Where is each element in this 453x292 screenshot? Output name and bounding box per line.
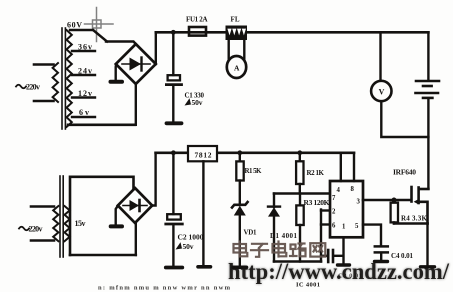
svg-text:1: 1 xyxy=(342,224,346,231)
ground C2 xyxy=(166,266,183,270)
label 24v xyxy=(78,67,92,76)
svg-text:R4 3.3K: R4 3.3K xyxy=(401,214,428,222)
AC source label lower ~220v xyxy=(19,225,43,234)
T2 primary lead lower xyxy=(31,239,54,242)
T2 secondary loop wire xyxy=(70,177,134,255)
wire pins 2-6 jumper xyxy=(320,210,322,262)
switch blade from 60V tap xyxy=(93,30,107,42)
wire source down xyxy=(426,224,428,266)
label 50v with polarity arrow xyxy=(176,242,194,251)
transformer T2 primary winding xyxy=(53,206,58,241)
label C3 0.01 xyxy=(338,273,362,280)
capacitor C4 xyxy=(375,246,388,260)
svg-text:FL: FL xyxy=(231,16,240,24)
wire pin8 to rail xyxy=(353,153,355,181)
voltmeter V branch wire xyxy=(379,32,381,80)
B2 negative stub xyxy=(111,206,122,227)
wire battery to mosfet drain xyxy=(427,99,429,189)
svg-text:220v: 220v xyxy=(26,83,40,92)
wire B2 bottom to loop xyxy=(135,223,137,255)
svg-text:FU1 2A: FU1 2A xyxy=(186,16,208,24)
label 12v xyxy=(78,89,92,98)
svg-text:12v: 12v xyxy=(78,89,92,98)
thermal breaker FL xyxy=(226,26,247,40)
wire pin5 to C4 xyxy=(363,225,381,245)
mosfet Q1 IRF640 xyxy=(412,187,429,224)
lower rail wire right of 7812 xyxy=(217,152,354,155)
lower rail wire left of 7812 xyxy=(156,152,188,155)
capacitor C1 xyxy=(166,32,181,121)
resistor R1 xyxy=(236,153,243,181)
T1 tap 12v wire xyxy=(72,96,95,98)
ground VD1 xyxy=(233,265,247,269)
wire jumper to pin6 xyxy=(321,223,330,225)
svg-text:2: 2 xyxy=(332,209,336,216)
label C1 330 xyxy=(185,92,205,100)
svg-text:3: 3 xyxy=(357,199,361,206)
capacitor C3 xyxy=(321,250,343,262)
AC source label upper ~220v xyxy=(16,83,40,92)
wire VD1 to ground xyxy=(239,216,241,266)
resistor R3 xyxy=(296,194,303,262)
label R1 5K xyxy=(245,167,263,175)
wire D1/R3 bottom tie xyxy=(274,260,321,263)
svg-text:50v: 50v xyxy=(192,98,203,107)
wire B1 right corner to top rail xyxy=(155,32,157,64)
timer U1 555 xyxy=(330,181,363,237)
ammeter A xyxy=(227,56,246,78)
watermark CJK line 电子电路网 xyxy=(234,242,326,257)
transformer T1 primary winding xyxy=(53,63,58,102)
ground C1 xyxy=(167,121,182,125)
wire V to battery bottom xyxy=(381,101,428,137)
svg-text:V: V xyxy=(379,88,385,97)
ground source xyxy=(421,265,435,268)
battery GB xyxy=(416,81,440,98)
wire FL to ammeter right xyxy=(243,40,245,62)
transformer T2 core xyxy=(60,176,63,257)
wire jumper to pin2 xyxy=(321,209,330,211)
svg-text:7: 7 xyxy=(332,195,336,202)
svg-text:7812: 7812 xyxy=(195,151,212,160)
cursor crosshair xyxy=(85,8,114,42)
zener diode VD1 xyxy=(232,202,248,216)
T1 primary lead lower xyxy=(34,100,54,103)
label FU1 2A xyxy=(186,16,208,24)
label 36v xyxy=(78,43,92,52)
svg-text:5: 5 xyxy=(355,223,359,230)
svg-text:VD1: VD1 xyxy=(244,229,258,237)
label R2 1K xyxy=(307,169,325,177)
label C2 1000 xyxy=(178,233,204,242)
label D1 4001 xyxy=(270,232,298,240)
label R3 120K xyxy=(304,198,330,207)
junction node R1/rail xyxy=(237,150,242,155)
T1 tap 24v wire xyxy=(72,74,95,76)
svg-text:D1 4001: D1 4001 xyxy=(270,232,298,240)
label 15v xyxy=(75,219,86,228)
regulator U2 7812 xyxy=(188,146,217,161)
wire pin1 to ground xyxy=(342,237,344,263)
svg-text:24v: 24v xyxy=(78,67,92,76)
svg-text:220v: 220v xyxy=(29,225,43,234)
wire switch to bridge xyxy=(106,42,136,45)
label FL xyxy=(231,16,240,24)
faint caption xyxy=(98,285,231,292)
svg-text:A: A xyxy=(234,64,240,73)
fuse FU1 xyxy=(189,27,206,36)
svg-text:R1 5K: R1 5K xyxy=(245,167,263,175)
svg-text:4: 4 xyxy=(337,187,341,194)
junction node R2/rail xyxy=(297,150,302,155)
wire B2 right to lower rail xyxy=(152,153,155,206)
label IC 4001 xyxy=(296,282,320,289)
svg-text:n: mfnm nmu m nnw wmr nn nwm: n: mfnm nmu m nnw wmr nn nwm xyxy=(98,285,231,292)
watermark url text xyxy=(228,259,450,284)
transformer T2 secondary winding xyxy=(65,206,70,241)
svg-text:15v: 15v xyxy=(75,219,86,228)
label R4 3.3K xyxy=(401,214,428,222)
wire R1 to VD1 xyxy=(239,181,241,206)
wire FL to ammeter left xyxy=(227,40,229,62)
wire pin4 to rail xyxy=(340,153,342,181)
bridge rectifier B1 xyxy=(116,44,156,84)
voltmeter V xyxy=(371,81,391,101)
svg-text:60V: 60V xyxy=(67,21,82,30)
svg-text:8: 8 xyxy=(351,186,355,193)
T1 tap 6v wire xyxy=(72,116,95,118)
T1 tap 60V wire xyxy=(70,29,93,31)
top rail wire left segment xyxy=(156,31,226,34)
capacitor C2 xyxy=(166,153,183,265)
bridge rectifier B2 xyxy=(118,188,152,223)
transformer T1 core xyxy=(62,28,65,129)
wire 7812 ground pin xyxy=(202,161,204,264)
junction node C1/rail xyxy=(171,30,176,35)
svg-text:http://www.cndzz.com/: http://www.cndzz.com/ xyxy=(228,259,450,284)
wire B1 bottom to T1 bottom lead xyxy=(135,84,137,125)
junction node gate/R4 xyxy=(392,198,397,203)
ground C4 xyxy=(375,260,388,263)
label 6v xyxy=(79,108,89,117)
wire pin3 to gate xyxy=(363,199,411,202)
node wire R2/R3/D1/pin7 xyxy=(274,192,330,195)
label VD1 xyxy=(244,229,258,237)
resistor R4 xyxy=(391,200,398,224)
wire T2 loop bottom xyxy=(70,254,136,257)
svg-text:C2 1000: C2 1000 xyxy=(178,233,204,242)
B1 negative stub xyxy=(111,65,123,82)
svg-text:50v: 50v xyxy=(183,242,194,251)
T1 bottom lead wire xyxy=(68,124,135,127)
T2 primary lead upper xyxy=(31,205,54,208)
T1 primary lead upper xyxy=(34,63,54,66)
ground pin1 xyxy=(338,263,350,266)
T1 tap 36v wire xyxy=(72,50,95,52)
wire source rail R4 to source xyxy=(394,222,428,225)
label IRF640 xyxy=(393,167,416,176)
label 50v with polarity arrow xyxy=(185,98,203,107)
label C4 0.01 xyxy=(391,252,414,260)
svg-text:IRF640: IRF640 xyxy=(393,167,416,176)
wire top rail to battery xyxy=(427,32,429,79)
resistor R2 xyxy=(296,153,303,194)
diode D1 xyxy=(268,194,280,262)
label 60V xyxy=(67,21,82,30)
svg-text:36v: 36v xyxy=(78,43,92,52)
ground 7812 xyxy=(198,265,211,269)
svg-text:R3 120K: R3 120K xyxy=(304,198,330,207)
top rail wire right segment xyxy=(247,31,429,34)
svg-text:6: 6 xyxy=(332,223,336,230)
transformer T1 secondary winding xyxy=(67,30,72,127)
svg-text:R2 1K: R2 1K xyxy=(307,169,325,177)
junction node C2/rail xyxy=(171,150,176,155)
svg-text:6v: 6v xyxy=(79,108,89,117)
